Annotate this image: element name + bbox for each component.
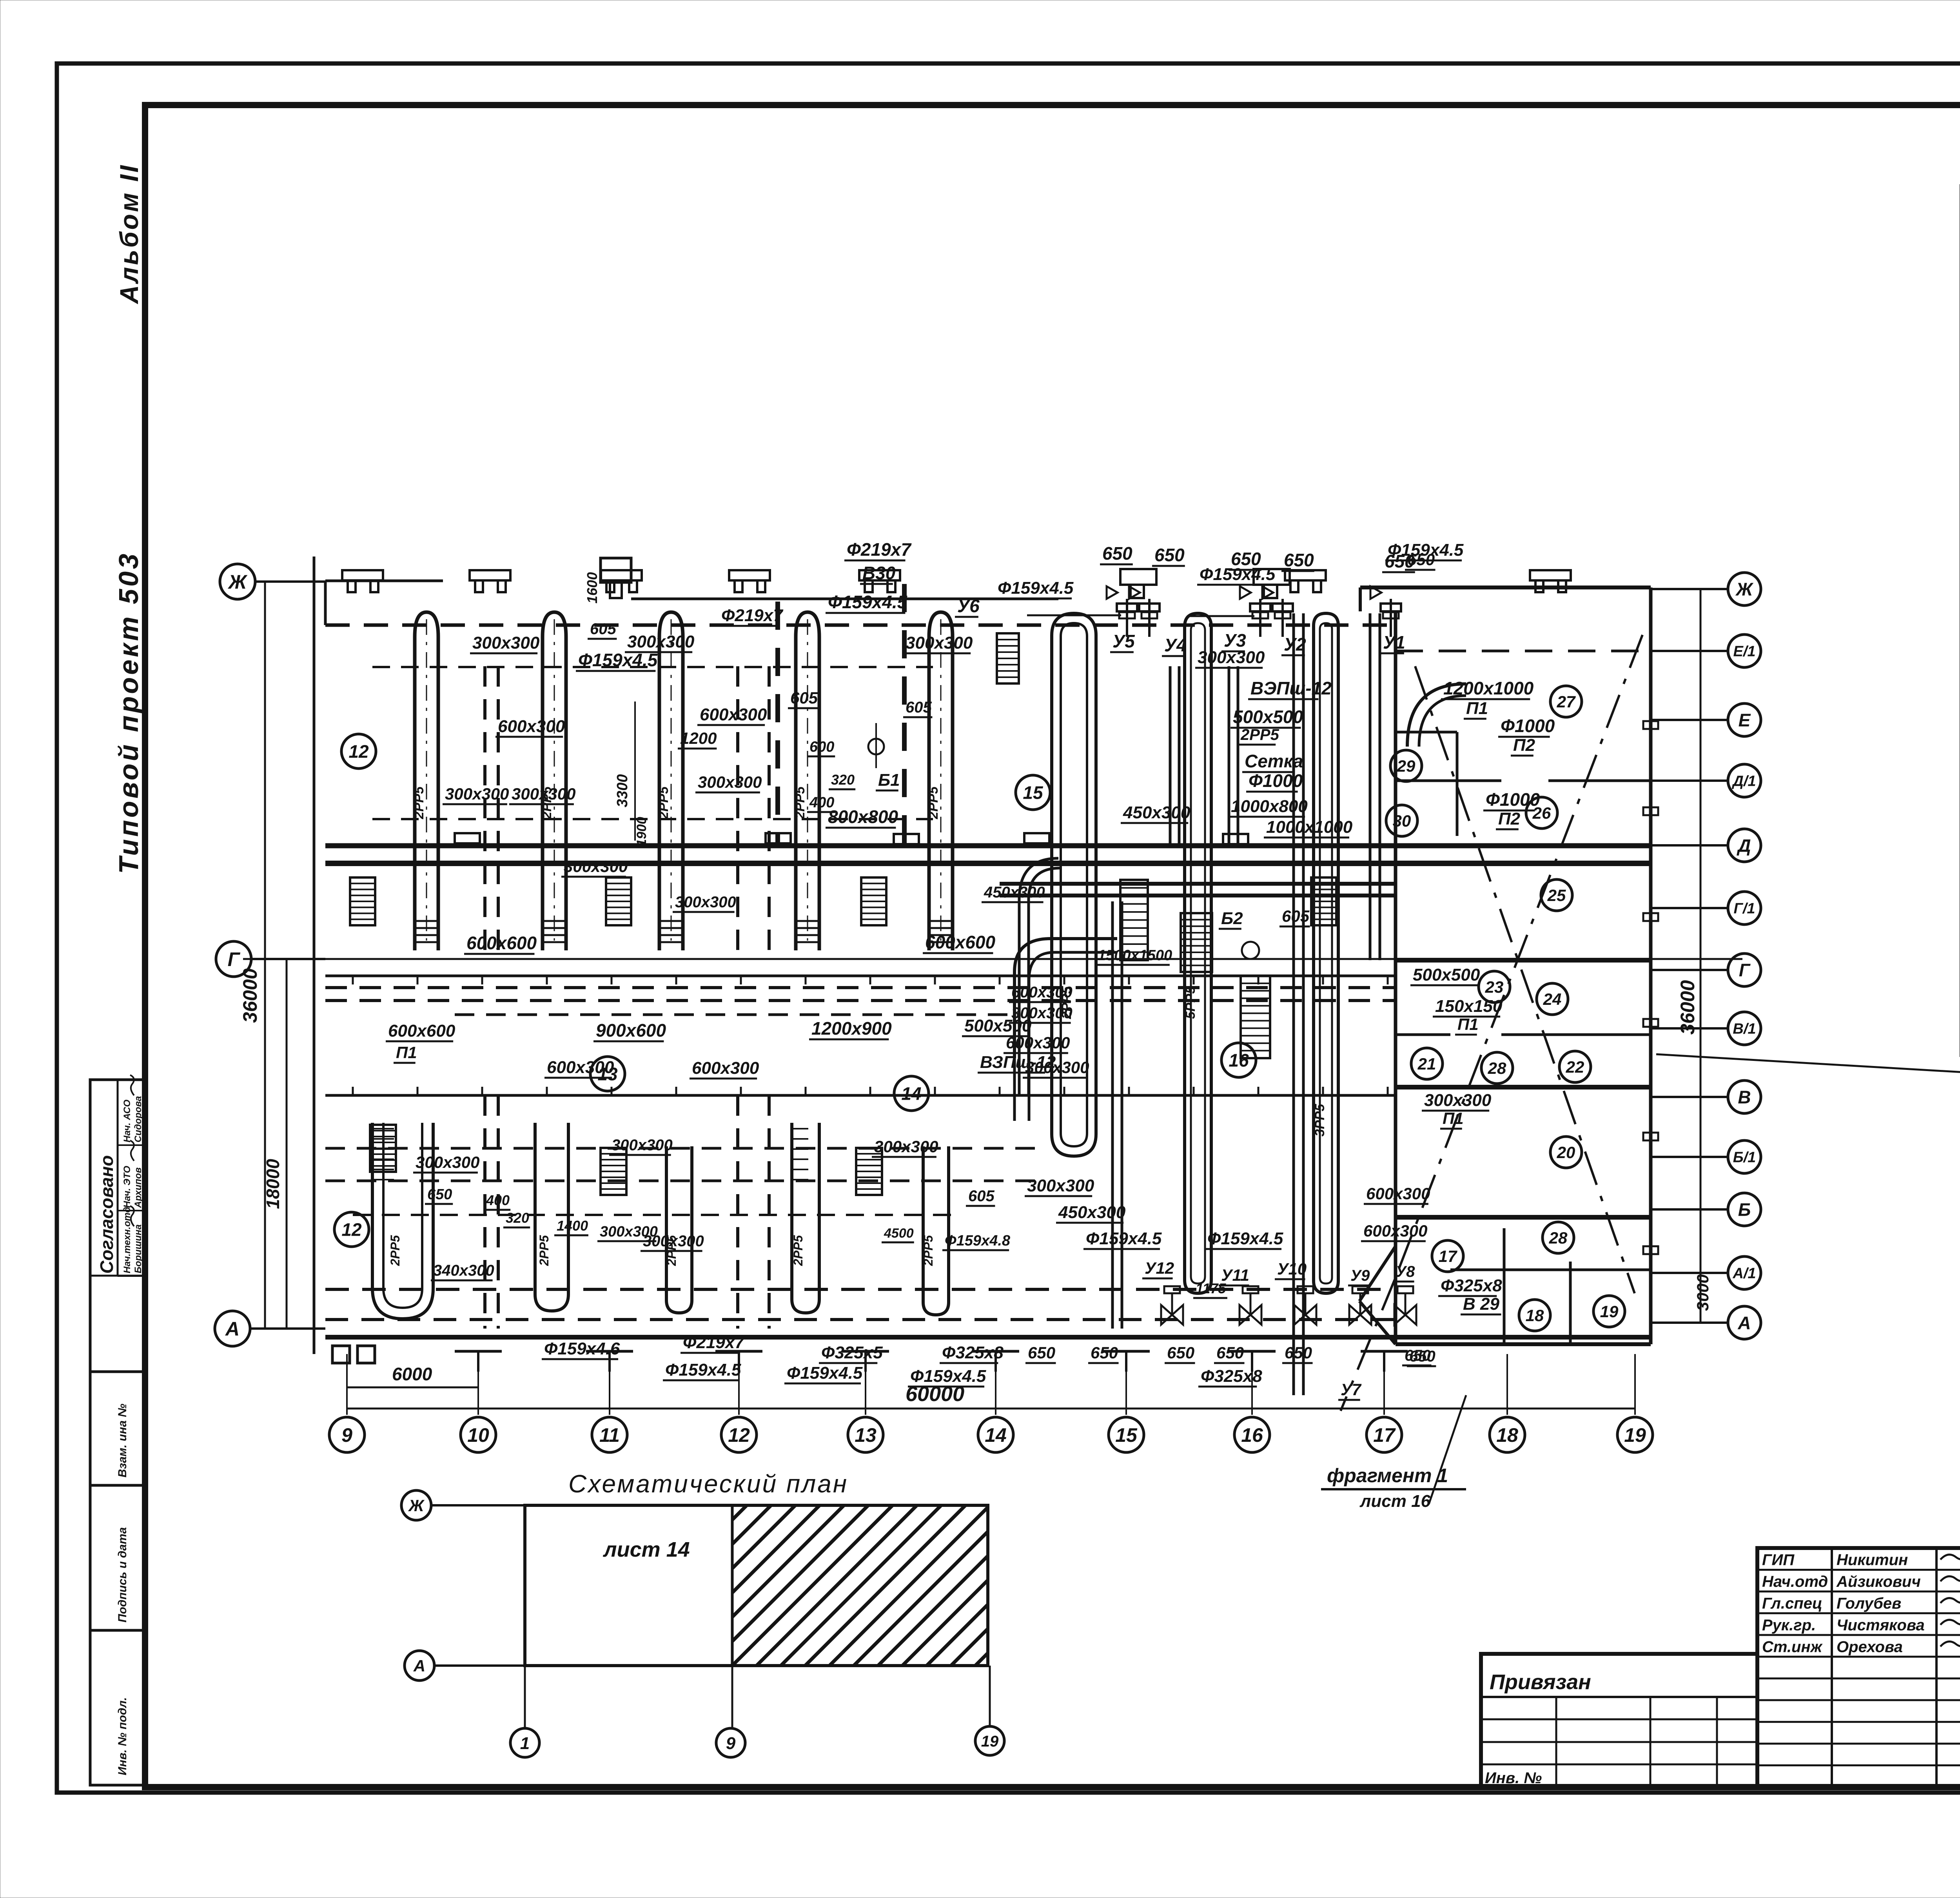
svg-text:Боришина: Боришина: [133, 1224, 143, 1273]
svg-text:Е/1: Е/1: [1733, 644, 1755, 660]
svg-text:1200: 1200: [680, 729, 717, 747]
svg-text:П1: П1: [1457, 1015, 1479, 1033]
svg-text:Ф219х7: Ф219х7: [721, 606, 784, 625]
svg-text:605: 605: [906, 699, 932, 716]
svg-text:22: 22: [1566, 1058, 1584, 1076]
svg-text:18000: 18000: [263, 1159, 283, 1209]
svg-text:11: 11: [599, 1424, 620, 1446]
svg-text:24: 24: [1543, 990, 1562, 1008]
svg-text:600х300: 600х300: [692, 1059, 759, 1078]
svg-text:600х300: 600х300: [1363, 1222, 1428, 1240]
svg-text:1000х1000: 1000х1000: [1266, 818, 1353, 837]
svg-text:Д: Д: [1736, 836, 1751, 856]
svg-text:У4: У4: [1164, 635, 1187, 655]
svg-text:12: 12: [341, 1220, 362, 1240]
svg-text:29: 29: [1397, 757, 1416, 775]
svg-text:Ж: Ж: [1735, 579, 1754, 600]
svg-text:300х300: 300х300: [445, 785, 509, 803]
svg-text:Рук.гр.: Рук.гр.: [1762, 1617, 1816, 1634]
svg-text:450х300: 450х300: [1058, 1203, 1126, 1222]
svg-text:605: 605: [590, 620, 616, 638]
svg-text:Ф159х4.5: Ф159х4.5: [1086, 1229, 1162, 1248]
svg-text:21: 21: [1417, 1055, 1436, 1073]
svg-text:В: В: [1738, 1087, 1751, 1108]
svg-text:320: 320: [506, 1210, 529, 1226]
svg-text:3000: 3000: [1693, 1274, 1712, 1311]
svg-text:27: 27: [1557, 692, 1576, 711]
svg-text:5РР5: 5РР5: [1183, 986, 1198, 1019]
svg-text:Альбом II: Альбом II: [114, 163, 143, 305]
svg-text:340х300: 340х300: [433, 1262, 494, 1279]
svg-text:13: 13: [855, 1424, 877, 1446]
svg-text:2РР5: 2РР5: [1240, 726, 1279, 743]
svg-text:2РР5: 2РР5: [793, 786, 808, 819]
svg-text:300х300: 300х300: [906, 633, 973, 653]
svg-text:Ф219х7: Ф219х7: [683, 1333, 745, 1352]
svg-text:Ф159х4.5: Ф159х4.5: [787, 1363, 863, 1383]
svg-text:300х300: 300х300: [698, 773, 762, 791]
svg-text:600х300: 600х300: [700, 705, 767, 724]
svg-text:1: 1: [520, 1734, 530, 1753]
svg-text:У12: У12: [1145, 1259, 1174, 1277]
svg-text:Ф159х4.6: Ф159х4.6: [544, 1339, 620, 1358]
svg-text:3300: 3300: [614, 774, 631, 807]
svg-text:600х300: 600х300: [1011, 984, 1073, 1001]
svg-text:300х300: 300х300: [512, 785, 576, 803]
svg-text:14: 14: [901, 1084, 921, 1104]
svg-text:14: 14: [985, 1424, 1007, 1446]
svg-text:650: 650: [1407, 550, 1435, 569]
svg-text:Е: Е: [1739, 710, 1751, 731]
svg-text:300х300: 300х300: [1011, 1004, 1073, 1022]
svg-text:П1: П1: [1466, 699, 1488, 718]
svg-text:600х300: 600х300: [1366, 1184, 1430, 1203]
svg-text:Ф159х4.5: Ф159х4.5: [828, 592, 908, 612]
svg-text:16: 16: [1229, 1050, 1249, 1071]
svg-text:300х300: 300х300: [416, 1153, 480, 1171]
svg-text:1400: 1400: [557, 1218, 588, 1234]
svg-text:2РР5: 2РР5: [921, 1235, 935, 1266]
svg-text:Б1: Б1: [878, 770, 900, 790]
svg-text:20: 20: [1557, 1143, 1575, 1162]
svg-text:Ф159х4.5: Ф159х4.5: [1200, 565, 1276, 584]
svg-text:Орехова: Орехова: [1837, 1638, 1903, 1655]
svg-text:Типовой проект 503: Типовой проект 503: [113, 551, 144, 874]
svg-text:1175: 1175: [1196, 1280, 1226, 1296]
svg-text:600х600: 600х600: [925, 932, 995, 952]
svg-text:Г/1: Г/1: [1733, 901, 1755, 917]
svg-text:650: 650: [1284, 550, 1314, 570]
svg-text:300х300: 300х300: [1027, 1176, 1094, 1195]
svg-text:ГИП: ГИП: [1762, 1551, 1795, 1568]
svg-text:Взам. ина №: Взам. ина №: [116, 1404, 129, 1477]
svg-text:Ф159х4.8: Ф159х4.8: [945, 1233, 1011, 1249]
svg-text:ВЭПш-12: ВЭПш-12: [1250, 678, 1332, 698]
svg-text:300х300: 300х300: [675, 894, 736, 911]
svg-text:Подпись и дата: Подпись и дата: [116, 1527, 129, 1622]
svg-text:150х150: 150х150: [1435, 997, 1503, 1016]
svg-text:300х300: 300х300: [472, 633, 540, 653]
svg-text:36000: 36000: [239, 968, 261, 1023]
svg-text:400: 400: [486, 1192, 510, 1208]
svg-text:1600: 1600: [584, 572, 600, 604]
svg-text:А: А: [1737, 1313, 1751, 1333]
svg-text:Айзикович: Айзикович: [1836, 1573, 1921, 1590]
svg-text:650: 650: [427, 1186, 452, 1203]
svg-text:У7: У7: [1341, 1380, 1361, 1399]
svg-text:У1: У1: [1383, 632, 1405, 653]
svg-text:П1: П1: [1443, 1109, 1464, 1128]
svg-text:500х500: 500х500: [1413, 965, 1480, 984]
svg-text:Ф159х4.5: Ф159х4.5: [910, 1367, 986, 1386]
svg-text:605: 605: [1282, 907, 1310, 925]
svg-text:4500: 4500: [884, 1226, 914, 1241]
svg-text:Ф159х4.5: Ф159х4.5: [1207, 1229, 1283, 1248]
svg-text:9: 9: [726, 1734, 736, 1753]
svg-text:600: 600: [809, 739, 834, 755]
svg-text:У9: У9: [1350, 1267, 1370, 1284]
svg-text:Голубев: Голубев: [1837, 1595, 1901, 1612]
svg-text:Никитин: Никитин: [1837, 1551, 1908, 1568]
svg-text:Ф325х5: Ф325х5: [821, 1343, 883, 1362]
svg-text:А/1: А/1: [1732, 1265, 1756, 1282]
svg-text:300х300: 300х300: [1424, 1091, 1492, 1110]
svg-text:Сидорова: Сидорова: [133, 1096, 143, 1142]
svg-text:П2: П2: [1498, 809, 1521, 828]
svg-text:300х300: 300х300: [564, 857, 628, 876]
svg-text:650: 650: [1091, 1343, 1118, 1362]
svg-text:450х300: 450х300: [1123, 803, 1191, 822]
svg-text:800х800: 800х800: [828, 807, 898, 827]
svg-text:2РР5: 2РР5: [537, 1235, 551, 1266]
svg-text:1000х800: 1000х800: [1231, 797, 1308, 816]
svg-text:Инв. № подл.: Инв. № подл.: [116, 1697, 129, 1775]
svg-text:650: 650: [1154, 545, 1185, 565]
svg-text:18: 18: [1526, 1306, 1544, 1325]
svg-text:36000: 36000: [1677, 980, 1699, 1035]
svg-text:2РР5: 2РР5: [791, 1235, 805, 1266]
svg-text:18: 18: [1496, 1424, 1518, 1446]
svg-text:Нач. ЭТО: Нач. ЭТО: [122, 1166, 132, 1208]
svg-text:15: 15: [1115, 1424, 1138, 1446]
svg-text:19: 19: [1624, 1424, 1646, 1446]
svg-text:Нач. АСО: Нач. АСО: [122, 1099, 132, 1142]
svg-text:Ф325х8: Ф325х8: [1441, 1276, 1502, 1295]
svg-text:Схематический план: Схематический план: [568, 1470, 848, 1498]
svg-text:17: 17: [1439, 1247, 1457, 1265]
svg-text:У2: У2: [1284, 634, 1306, 654]
svg-text:650: 650: [1405, 1347, 1431, 1364]
svg-text:30: 30: [1393, 812, 1411, 830]
svg-text:Ж: Ж: [408, 1496, 425, 1515]
svg-text:2РР5: 2РР5: [388, 1235, 402, 1266]
svg-text:Ф159х4.5: Ф159х4.5: [998, 578, 1074, 598]
svg-text:Г: Г: [228, 948, 241, 970]
svg-text:лист 14: лист 14: [603, 1538, 690, 1561]
svg-text:Ф1000: Ф1000: [1249, 770, 1303, 791]
svg-text:28: 28: [1549, 1229, 1568, 1247]
svg-text:В 29: В 29: [1463, 1294, 1499, 1314]
svg-text:Ст.инж: Ст.инж: [1762, 1638, 1823, 1655]
svg-text:фрагмент 1: фрагмент 1: [1327, 1465, 1448, 1486]
svg-text:А: А: [413, 1657, 425, 1675]
svg-text:23: 23: [1485, 978, 1504, 996]
svg-text:600х300: 600х300: [498, 717, 565, 736]
svg-text:19: 19: [1600, 1302, 1619, 1321]
svg-text:Б2: Б2: [1221, 909, 1243, 928]
svg-text:16: 16: [1241, 1424, 1263, 1446]
svg-text:У5: У5: [1112, 631, 1135, 651]
svg-text:Ф1000: Ф1000: [1486, 789, 1540, 810]
svg-text:300х300: 300х300: [627, 632, 695, 651]
svg-text:У10: У10: [1277, 1260, 1307, 1278]
svg-text:Привязан: Привязан: [1490, 1670, 1591, 1694]
svg-text:В/1: В/1: [1733, 1021, 1756, 1037]
svg-text:6000: 6000: [392, 1364, 432, 1384]
svg-text:2РР5: 2РР5: [926, 786, 941, 819]
svg-text:Чистякова: Чистякова: [1837, 1617, 1925, 1634]
svg-text:320: 320: [831, 772, 855, 788]
svg-text:Ф1000: Ф1000: [1501, 716, 1555, 736]
svg-text:600х600: 600х600: [388, 1021, 456, 1041]
svg-text:605: 605: [790, 689, 818, 707]
svg-text:Ж: Ж: [227, 571, 248, 593]
svg-text:650: 650: [1028, 1343, 1055, 1362]
svg-text:2РР5: 2РР5: [656, 786, 671, 819]
svg-text:Б: Б: [1738, 1200, 1751, 1220]
svg-text:500х500: 500х500: [1233, 707, 1303, 727]
svg-text:300х300: 300х300: [874, 1137, 938, 1156]
svg-text:10: 10: [467, 1424, 489, 1446]
svg-text:Г: Г: [1739, 960, 1751, 981]
svg-text:Архипов: Архипов: [133, 1167, 143, 1208]
svg-text:300х300: 300х300: [1025, 1058, 1089, 1077]
svg-text:12: 12: [348, 741, 369, 762]
svg-text:605: 605: [968, 1187, 995, 1205]
svg-text:650: 650: [1285, 1343, 1312, 1362]
svg-text:Ф325х8: Ф325х8: [1201, 1367, 1262, 1386]
svg-text:15: 15: [1023, 783, 1044, 803]
svg-text:400: 400: [809, 794, 834, 811]
svg-text:900х600: 900х600: [596, 1020, 666, 1041]
svg-text:300х300: 300х300: [612, 1137, 673, 1154]
svg-text:450х300: 450х300: [984, 884, 1045, 901]
svg-text:1500х1500: 1500х1500: [1098, 947, 1172, 964]
svg-text:17: 17: [1373, 1424, 1396, 1446]
svg-text:У3: У3: [1224, 630, 1246, 651]
svg-text:300х300: 300х300: [600, 1224, 658, 1240]
svg-text:Сетка: Сетка: [1245, 751, 1303, 771]
svg-text:650: 650: [1102, 543, 1132, 564]
svg-text:П1: П1: [396, 1043, 417, 1062]
svg-text:600х600: 600х600: [466, 933, 537, 953]
svg-text:Д/1: Д/1: [1731, 773, 1756, 790]
svg-text:А: А: [225, 1318, 240, 1340]
svg-text:Ф219х7: Ф219х7: [847, 539, 912, 560]
svg-text:1900: 1900: [634, 817, 649, 847]
svg-text:Инв. №: Инв. №: [1485, 1769, 1542, 1787]
svg-text:П2: П2: [1513, 736, 1535, 755]
svg-text:12: 12: [728, 1424, 750, 1446]
svg-text:В30: В30: [862, 563, 896, 583]
svg-text:650: 650: [1216, 1343, 1244, 1362]
svg-text:2РР5: 2РР5: [412, 786, 426, 819]
svg-text:У8: У8: [1396, 1263, 1415, 1280]
svg-text:Согласовано: Согласовано: [96, 1155, 117, 1274]
svg-text:9: 9: [341, 1424, 352, 1446]
svg-text:Б/1: Б/1: [1733, 1149, 1756, 1166]
svg-text:Гл.спец: Гл.спец: [1762, 1595, 1822, 1612]
svg-text:1200х900: 1200х900: [811, 1018, 892, 1039]
svg-text:Ф159х4.5: Ф159х4.5: [665, 1360, 741, 1380]
svg-text:Нач.отд: Нач.отд: [1762, 1573, 1828, 1590]
svg-text:25: 25: [1547, 886, 1566, 905]
svg-text:600х300: 600х300: [1006, 1033, 1070, 1052]
svg-text:3РР5: 3РР5: [1312, 1104, 1327, 1137]
svg-text:28: 28: [1488, 1059, 1506, 1077]
svg-text:лист 16: лист 16: [1359, 1492, 1431, 1511]
svg-text:600х300: 600х300: [547, 1058, 614, 1077]
svg-text:650: 650: [1167, 1343, 1194, 1362]
svg-text:Ф325х8: Ф325х8: [942, 1343, 1004, 1362]
svg-text:19: 19: [981, 1733, 999, 1750]
